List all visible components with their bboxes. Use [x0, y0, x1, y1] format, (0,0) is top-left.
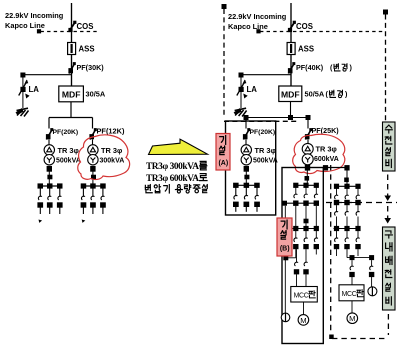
svg-text:22.9kV Incoming: 22.9kV Incoming	[5, 11, 64, 20]
switches: new group MCC feeders	[349, 260, 374, 277]
ASS automatic section switch (right)	[287, 43, 314, 55]
annotation: red loop around 300kVA transformer (left)	[78, 135, 130, 180]
svg-text:MDF: MDF	[62, 90, 81, 100]
svg-text:600kVA: 600kVA	[314, 156, 339, 163]
label box: 수전설비 (reception facilities)	[383, 122, 396, 171]
boundary: dashed division line (right, 202.5)	[326, 202, 397, 204]
yellow change arrow	[149, 139, 208, 154]
fuse PF(25K) (right 600kVA branch)	[305, 126, 339, 140]
bus: new group row 1	[334, 184, 361, 189]
svg-text:MCC: MCC	[342, 291, 357, 298]
wire: 500kVA transformer to bus (right diagram)	[244, 166, 250, 185]
svg-text:TR 3φ: TR 3φ	[316, 145, 337, 154]
enclosure: new group dashed boundary	[329, 165, 386, 339]
boundary: bottom right dashed corner	[387, 314, 389, 335]
feeder breaker L3-2 (left 300kVA)	[90, 183, 96, 214]
bus: 300kVA LV bus (left)	[82, 185, 104, 187]
fuse PF(12K) (left 300kVA branch)	[89, 127, 125, 140]
feeder breaker A-1 (facility A)	[233, 183, 239, 212]
COS cutout switch (right)	[288, 21, 313, 32]
wire: right main incoming vertical	[290, 3, 292, 86]
svg-text:TR 3φ: TR 3φ	[255, 146, 276, 155]
svg-text:300kVA: 300kVA	[100, 158, 125, 165]
switches: facility B row 3 breakers	[293, 231, 319, 250]
lamp/meter symbol (facility B)	[281, 313, 290, 322]
bus: new group row 2	[334, 200, 361, 205]
bus: new group row 3	[334, 226, 361, 231]
feeder breaker L5-1 (left 500kVA)	[37, 183, 43, 214]
fuse PF(20K) (right 500kVA branch)	[243, 128, 275, 139]
wire: dashed tap line at COS (left)	[37, 29, 97, 33]
svg-text:TR3φ 300kVA: TR3φ 300kVA	[146, 162, 199, 172]
svg-text:MCC: MCC	[294, 292, 309, 299]
feeder breaker A-2 (facility A)	[244, 183, 250, 212]
wire: 500kVA transformer to bus (left)	[47, 166, 53, 186]
feeder breaker A-3 (facility A)	[254, 183, 260, 212]
wire: left main incoming vertical	[71, 3, 73, 86]
ground (left LA)	[16, 108, 29, 117]
feeder breaker L5-3 (left 500kVA)	[57, 183, 63, 214]
svg-text:(B): (B)	[280, 246, 290, 253]
arrow: dashed down arrow 2	[384, 206, 391, 224]
lightning arrester LA (right)	[237, 73, 257, 109]
bus: facility A LV bus	[235, 184, 259, 186]
enclosure box: existing facility B group	[282, 168, 323, 344]
label box: 기설(A) pink	[216, 134, 230, 171]
feeder breaker L3-3 (left 300kVA)	[100, 183, 106, 214]
feeder breaker L5-2 (left 500kVA)	[47, 183, 53, 214]
svg-text:MDF: MDF	[281, 89, 300, 99]
svg-text:TR 3φ: TR 3φ	[58, 146, 79, 155]
switches: facility B MCC feeders	[294, 249, 309, 286]
svg-text:COS: COS	[77, 22, 94, 31]
svg-text:COS: COS	[296, 22, 313, 31]
switches: new group row 3 breakers	[334, 231, 361, 250]
arrow: dashed down arrow 1	[384, 175, 391, 202]
MCC panel box (new group)	[339, 277, 364, 301]
svg-text:M: M	[300, 316, 306, 325]
annotation text: TR3p 300kVA -> 600kVA upgrade	[145, 161, 207, 193]
feeder breaker L3-1 (left 300kVA)	[81, 183, 87, 214]
wire: MDF to HV bus (right)	[244, 102, 311, 129]
MOF metering box MDF 50/5A (changed) (right)	[279, 86, 348, 102]
svg-text:LA: LA	[29, 85, 40, 94]
svg-text:500kVA: 500kVA	[253, 158, 278, 165]
feeder end mark (left 500kVA)	[39, 220, 43, 223]
svg-text:PF(20K): PF(20K)	[53, 129, 79, 136]
wire: facility B row2 to row3	[296, 206, 317, 227]
label box: 기설(B) pink	[277, 218, 292, 256]
svg-text:PF(30K): PF(30K)	[77, 63, 105, 72]
wire: branch to LA (left)	[23, 74, 72, 76]
transformer TR 3phase 500kVA (left)	[44, 140, 81, 165]
feeder end mark (left 300kVA)	[82, 220, 86, 223]
svg-text:Kapco Line: Kapco Line	[228, 22, 268, 31]
wire: MDF to split bus (left)	[49, 102, 93, 129]
wire: new group feeder stubs	[337, 249, 359, 256]
svg-text:500kVA: 500kVA	[56, 158, 81, 165]
fuse PF(40K) (changed) (right)	[288, 62, 353, 73]
boundary: dashed division line below LA (right diagram)	[224, 120, 297, 122]
wire: branch to LA (right)	[241, 74, 291, 76]
transformer TR 3phase 600kVA (right diagram)	[302, 140, 339, 165]
svg-text:50/5A: 50/5A	[305, 90, 325, 99]
svg-text:22.9kV Incoming: 22.9kV Incoming	[228, 12, 287, 21]
label box: 구내배전설비 (premises distribution facilities)	[383, 227, 396, 310]
fuse PF(30K) (left)	[68, 62, 104, 73]
lamp/meter symbol (new group)	[368, 277, 377, 296]
transformer TR 3phase 500kVA (right diagram)	[241, 140, 278, 165]
svg-text:LA: LA	[247, 85, 258, 94]
bus: facility B row 3	[292, 226, 319, 231]
wire: new group MCC tie	[347, 249, 374, 260]
boundary: left dashed property line (right diagram)	[222, 4, 227, 118]
wire: tie conductor to new group	[323, 165, 350, 186]
MOF metering box MDF 30/5A (left)	[59, 86, 106, 102]
svg-text:(A): (A)	[218, 160, 228, 167]
transformer TR 3phase 300kVA (left)	[88, 140, 125, 165]
svg-text:30/5A: 30/5A	[86, 90, 106, 99]
motor M (facility B)	[298, 302, 309, 325]
wire: 300kVA transformer to bus (left)	[90, 166, 96, 186]
switches: new group row2-row3 breakers	[335, 205, 360, 226]
label: 22.9kV Incoming Kapco Line (right)	[228, 12, 287, 31]
svg-text:M: M	[349, 314, 355, 323]
fuse PF(20K) (left 500kVA branch)	[46, 128, 78, 139]
lightning arrester LA (left)	[19, 73, 40, 109]
bus: facility B row 2	[282, 201, 319, 206]
wire: lamp feeder (facility B)	[283, 206, 296, 313]
svg-text:TR3φ 600kVA: TR3φ 600kVA	[146, 174, 199, 184]
ground (right LA)	[234, 108, 247, 117]
annotation: red loop around 600kVA transformer	[293, 134, 345, 173]
bus: 500kVA LV bus (left)	[39, 185, 61, 187]
enclosure box: existing facility A group	[226, 121, 276, 215]
svg-text:PF(12K): PF(12K)	[97, 127, 125, 136]
COS cutout switch (left)	[68, 21, 93, 32]
svg-text:TR 3φ: TR 3φ	[101, 146, 122, 155]
svg-text:ASS: ASS	[298, 45, 314, 54]
switches: facility B row 1 breakers	[294, 188, 318, 199]
svg-text:PF(40K): PF(40K)	[296, 63, 324, 72]
svg-text:ASS: ASS	[79, 45, 95, 54]
wire: facility B third feeder stub	[315, 249, 317, 254]
boundary: right dashed property line (top right)	[383, 10, 388, 122]
motor M (new group)	[347, 301, 358, 324]
MCC panel box (facility B)	[291, 287, 318, 303]
bus: facility B row 1	[293, 183, 319, 188]
svg-text:PF(20K): PF(20K)	[250, 129, 276, 136]
switches: new group row 1 breakers	[335, 189, 360, 200]
wire: dashed tap line at COS (right)	[256, 29, 385, 33]
svg-text:PF(25K): PF(25K)	[312, 126, 340, 135]
ASS automatic section switch (left)	[68, 43, 95, 55]
svg-text:Kapco Line: Kapco Line	[5, 21, 45, 30]
wire: 600kVA transformer output junction	[305, 165, 311, 185]
label: 22.9kV Incoming Kapco Line (left)	[5, 11, 64, 30]
